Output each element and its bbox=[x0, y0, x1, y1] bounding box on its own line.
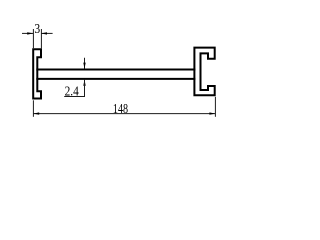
dim 3: left tail line bbox=[22, 32, 33, 34]
dim 148: dimension line bbox=[33, 113, 215, 115]
profile outline (extrusion cross-section) bbox=[33, 48, 215, 99]
dim 2.4: arrow pointing down bbox=[83, 63, 85, 69]
dim 3: arrow pointing right bbox=[27, 32, 33, 34]
dim 3: arrow pointing left bbox=[41, 32, 47, 34]
dim 3: extension line right bbox=[40, 29, 42, 48]
svg-text:2.4: 2.4 bbox=[65, 85, 79, 100]
dim 148: arrow pointing right bbox=[209, 112, 215, 114]
svg-text:148: 148 bbox=[113, 102, 128, 117]
dim 2.4: leader underline bbox=[64, 96, 85, 98]
dim 3: right tail line bbox=[41, 32, 53, 34]
svg-text:3: 3 bbox=[34, 22, 40, 37]
dim 3: extension line left bbox=[32, 29, 34, 48]
dim 2.4: lower line bbox=[84, 80, 86, 97]
dim 2.4: arrow pointing up bbox=[83, 80, 85, 86]
dim 2.4: upper line bbox=[84, 58, 86, 69]
channel spine face line across web junction bbox=[193, 69, 195, 80]
flange inner face line across web junction bbox=[36, 69, 38, 80]
dim 148: arrow pointing left bbox=[33, 112, 39, 114]
dim 148: extension line left bbox=[32, 100, 34, 117]
dim 148: extension line right bbox=[214, 97, 216, 117]
